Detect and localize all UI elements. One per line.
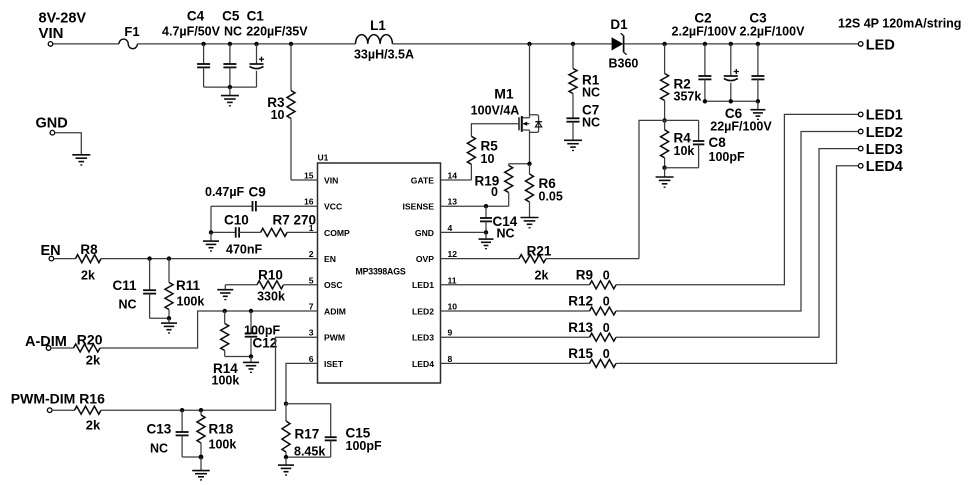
terminal A-DIM xyxy=(25,334,67,350)
svg-text:C11: C11 xyxy=(113,278,138,293)
node input cap ground junction xyxy=(228,85,232,89)
svg-text:3: 3 xyxy=(309,328,314,338)
wire R14/C12 bottom link xyxy=(225,356,251,358)
svg-text:R10: R10 xyxy=(258,267,283,282)
node C14 tap on ISENSE xyxy=(484,204,488,208)
node GND pin junction xyxy=(484,230,488,234)
svg-text:M1: M1 xyxy=(494,86,514,102)
svg-text:LED1: LED1 xyxy=(866,108,903,124)
wire C9 to compensation ground node xyxy=(210,206,212,232)
node R2/R4 OVP divider junction xyxy=(662,118,666,122)
node C12 bottom junction xyxy=(249,354,253,358)
capacitor C6 22uF/100V polarized xyxy=(710,44,772,134)
capacitor C10 470nF on COMP xyxy=(211,213,262,257)
node C1 tap xyxy=(254,42,258,46)
svg-text:0: 0 xyxy=(603,295,610,309)
wire A-DIM net to pin 7 ADIM xyxy=(100,311,318,348)
svg-text:NC: NC xyxy=(582,116,600,130)
wire GND terminal to ground xyxy=(55,133,82,155)
wire R21 to OVP divider xyxy=(546,258,639,260)
svg-text:F1: F1 xyxy=(124,24,139,39)
capacitor C3 2.2uF/100V xyxy=(740,11,806,102)
resistor R18 100k xyxy=(197,410,236,457)
svg-text:22µF/100V: 22µF/100V xyxy=(710,120,772,134)
wire VIN input rail (VIN terminal to fuse F1) xyxy=(53,43,119,45)
svg-text:100k: 100k xyxy=(212,374,240,388)
wire R17/C15 bottom link xyxy=(286,456,331,458)
ground compensation xyxy=(203,232,219,251)
node R4 bottom junction xyxy=(662,166,666,170)
ground OVP divider xyxy=(656,168,674,188)
svg-text:100k: 100k xyxy=(209,437,237,451)
terminal GND xyxy=(36,116,68,136)
svg-text:ISET: ISET xyxy=(324,359,344,369)
wire pin 13 ISENSE net xyxy=(441,205,509,207)
capacitor C1 220uF/35V polarized xyxy=(246,9,308,88)
svg-text:VCC: VCC xyxy=(324,202,342,212)
svg-text:0: 0 xyxy=(491,185,498,199)
svg-text:7: 7 xyxy=(309,302,314,312)
svg-text:ADIM: ADIM xyxy=(324,306,346,316)
svg-text:PWM-DIM: PWM-DIM xyxy=(11,391,76,407)
svg-text:2.2µF/100V: 2.2µF/100V xyxy=(740,24,806,38)
svg-text:VIN: VIN xyxy=(39,25,64,42)
terminal LED3 xyxy=(858,142,902,158)
svg-text:OVP: OVP xyxy=(416,254,434,264)
terminal LED2 xyxy=(858,125,902,141)
svg-text:470nF: 470nF xyxy=(226,243,262,257)
svg-text:PWM: PWM xyxy=(324,333,345,343)
svg-text:C10: C10 xyxy=(224,213,249,228)
capacitor C11 NC xyxy=(113,259,157,319)
svg-text:0.05: 0.05 xyxy=(539,190,563,204)
svg-text:2k: 2k xyxy=(86,418,101,433)
svg-text:R20: R20 xyxy=(77,332,103,348)
svg-text:R9: R9 xyxy=(576,267,593,282)
svg-text:10: 10 xyxy=(271,108,285,122)
svg-text:100k: 100k xyxy=(177,295,205,309)
svg-text:LED3: LED3 xyxy=(866,142,903,158)
svg-text:220µF/35V: 220µF/35V xyxy=(246,25,308,39)
svg-text:R16: R16 xyxy=(79,391,105,407)
resistor R11 100k xyxy=(165,259,204,319)
node C3 tap xyxy=(756,42,760,46)
ground R6 sense xyxy=(521,218,539,228)
resistor R16 2k xyxy=(52,391,105,433)
resistor R12 0 xyxy=(568,294,616,315)
node C6 tap xyxy=(729,42,733,46)
wire pin 10 LED2 to R12 xyxy=(441,310,590,312)
resistor R3 10 xyxy=(267,44,295,180)
wire D1 cathode to LED output rail xyxy=(624,43,858,45)
wire pin 11 LED1 to R9 xyxy=(441,284,590,286)
node R11 bottom junction xyxy=(167,316,171,320)
ground R1/C7 branch xyxy=(564,140,582,150)
resistor R2 357k xyxy=(661,44,702,121)
wire EN net to pin 2 xyxy=(101,258,318,260)
wire output cap bottom rail xyxy=(705,100,758,102)
svg-text:4.7µF/50V: 4.7µF/50V xyxy=(162,25,221,39)
wire R15 to LED4 terminal xyxy=(616,166,858,364)
resistor R8 2k xyxy=(54,242,101,283)
svg-text:330k: 330k xyxy=(257,290,285,304)
resistor R21 2k xyxy=(519,243,552,282)
node M1 drain junction xyxy=(527,42,531,46)
svg-text:357k: 357k xyxy=(674,90,702,104)
svg-text:LED4: LED4 xyxy=(412,359,434,369)
pin names and numbers U1 xyxy=(304,171,457,369)
resistor R7 270 xyxy=(239,213,317,237)
capacitor C15 100pF xyxy=(286,404,382,457)
resistor R4 10k xyxy=(661,120,695,167)
resistor R6 0.05 xyxy=(526,164,563,218)
svg-text:R17: R17 xyxy=(295,426,320,441)
svg-text:EN: EN xyxy=(324,254,336,264)
svg-text:C2: C2 xyxy=(694,11,711,26)
resistor R5 10 xyxy=(467,136,498,180)
node C2 tap xyxy=(703,42,707,46)
diode D1 B360 schottky xyxy=(609,17,639,71)
ground ADIM filter xyxy=(243,357,259,373)
op-amp U1 MP3398AGS controller IC body xyxy=(318,153,441,384)
svg-text:2.2µF/100V: 2.2µF/100V xyxy=(672,24,738,38)
capacitor C12 100pF xyxy=(244,311,280,357)
svg-text:R11: R11 xyxy=(176,278,201,293)
node R17 bottom junction xyxy=(284,455,288,459)
label output string rating xyxy=(838,17,961,31)
svg-text:2k: 2k xyxy=(81,269,95,283)
svg-text:ISENSE: ISENSE xyxy=(402,202,434,212)
svg-text:U1: U1 xyxy=(318,153,329,163)
svg-text:LED2: LED2 xyxy=(412,306,434,316)
capacitor C5 NC xyxy=(222,9,242,88)
wire pin 9 LED3 to R13 xyxy=(441,336,590,338)
svg-text:0: 0 xyxy=(603,321,610,335)
svg-text:15: 15 xyxy=(304,171,314,181)
wire pin 8 LED4 to R15 xyxy=(441,362,590,364)
ground ISET xyxy=(278,457,294,475)
node M1 source junction xyxy=(527,162,531,166)
svg-text:NC: NC xyxy=(582,86,600,100)
node compensation ground junction xyxy=(209,230,213,234)
wire pin 6 ISET to R17 xyxy=(286,363,318,403)
ground OSC timing resistor xyxy=(217,285,233,300)
svg-text:2k: 2k xyxy=(535,269,549,283)
svg-text:R8: R8 xyxy=(80,242,98,257)
inductor L1 33uH/3.5A xyxy=(354,18,414,62)
svg-text:12S 4P 120mA/string: 12S 4P 120mA/string xyxy=(838,17,961,31)
svg-text:R13: R13 xyxy=(568,320,593,335)
svg-text:L1: L1 xyxy=(370,18,386,33)
svg-text:R21: R21 xyxy=(527,243,552,258)
resistor R1 NC xyxy=(569,44,600,118)
terminal VIN xyxy=(39,11,87,47)
capacitor C13 NC xyxy=(147,410,189,457)
node R2 tap xyxy=(662,42,666,46)
terminal EN xyxy=(41,243,61,261)
node R11 tap xyxy=(167,256,171,260)
node R18 tap xyxy=(199,408,203,412)
resistor R13 0 xyxy=(568,320,616,341)
node R17 top junction xyxy=(284,402,288,406)
svg-text:8.45k: 8.45k xyxy=(294,444,325,458)
svg-text:NC: NC xyxy=(150,442,168,456)
ground input caps xyxy=(221,87,239,106)
svg-text:100pF: 100pF xyxy=(709,150,745,164)
node C13 tap xyxy=(180,408,184,412)
resistor R10 330k xyxy=(225,267,317,303)
svg-text:100V/4A: 100V/4A xyxy=(471,104,520,118)
ground U1 GND pin xyxy=(479,232,494,248)
svg-text:C13: C13 xyxy=(147,421,172,436)
node R14 tap xyxy=(223,309,227,313)
svg-text:0: 0 xyxy=(603,268,610,282)
svg-text:B360: B360 xyxy=(609,57,639,71)
resistor R17 8.45k xyxy=(282,404,325,459)
svg-text:5: 5 xyxy=(309,275,314,285)
svg-text:10k: 10k xyxy=(674,144,695,158)
svg-text:8: 8 xyxy=(448,354,453,364)
svg-text:2k: 2k xyxy=(86,353,101,368)
svg-text:0.47µF: 0.47µF xyxy=(205,185,245,199)
capacitor C14 NC xyxy=(480,206,518,240)
wire fuse to inductor L1 (nodes C4 C5 C1 R3) xyxy=(137,43,355,45)
svg-text:D1: D1 xyxy=(610,17,628,32)
svg-text:GND: GND xyxy=(415,228,434,238)
wire PWM-DIM net to pin 3 PWM xyxy=(101,337,318,410)
svg-text:LED1: LED1 xyxy=(412,280,434,290)
svg-text:VIN: VIN xyxy=(324,175,338,185)
wire input cap bottom rail xyxy=(204,86,257,88)
wire R9 to LED1 terminal xyxy=(616,114,858,284)
svg-text:C1: C1 xyxy=(247,9,265,24)
ground GND terminal xyxy=(72,155,90,165)
node output cap rail junctions xyxy=(703,99,760,103)
node R3 tap xyxy=(289,42,293,46)
svg-text:12: 12 xyxy=(448,249,458,259)
svg-text:11: 11 xyxy=(448,275,457,285)
node R1/C7 junction xyxy=(571,42,575,46)
wire gate of M1 to R5 xyxy=(471,124,519,137)
wire R13 to LED3 terminal xyxy=(616,149,858,338)
capacitor C8 100pF xyxy=(693,120,745,167)
fuse F1 xyxy=(119,24,140,49)
svg-text:2: 2 xyxy=(309,249,314,259)
svg-text:C9: C9 xyxy=(249,185,266,200)
resistor R19 0 xyxy=(475,164,513,206)
svg-text:13: 13 xyxy=(448,197,458,207)
svg-text:LED4: LED4 xyxy=(866,159,903,175)
terminal LED1 xyxy=(858,108,902,124)
resistor R9 0 xyxy=(576,267,616,288)
svg-text:NC: NC xyxy=(119,298,137,312)
wire R3 to pin 15 VIN xyxy=(291,179,318,181)
svg-text:C12: C12 xyxy=(253,336,278,351)
svg-text:GATE: GATE xyxy=(411,175,435,185)
svg-text:NC: NC xyxy=(224,25,242,39)
terminal LED output xyxy=(858,38,894,54)
svg-text:C4: C4 xyxy=(187,9,205,24)
svg-text:GND: GND xyxy=(36,116,68,132)
node C12 tap xyxy=(249,309,253,313)
svg-text:33µH/3.5A: 33µH/3.5A xyxy=(354,48,414,62)
capacitor C7 NC xyxy=(567,103,601,141)
resistor R14 100k xyxy=(212,311,240,388)
svg-text:R15: R15 xyxy=(568,346,593,361)
svg-text:100pF: 100pF xyxy=(346,439,382,453)
wire R12 to LED2 terminal xyxy=(616,132,858,312)
svg-text:LED3: LED3 xyxy=(412,333,434,343)
capacitor C2 2.2uF/100V xyxy=(672,11,738,102)
svg-text:LED2: LED2 xyxy=(866,125,903,141)
wire pin 4 GND net xyxy=(441,231,487,233)
svg-text:NC: NC xyxy=(497,227,515,241)
wire C11/R11 bottom link xyxy=(150,317,169,319)
capacitor C4 4.7uF/50V xyxy=(162,9,221,88)
svg-text:0: 0 xyxy=(603,347,610,361)
wire pin 12 OVP to R21 xyxy=(441,258,520,260)
wire R5 to pin 14 GATE xyxy=(441,179,472,181)
svg-text:10: 10 xyxy=(448,302,458,312)
ground EN divider xyxy=(161,318,177,333)
svg-text:9: 9 xyxy=(448,328,453,338)
svg-text:EN: EN xyxy=(41,243,61,259)
node C5 tap xyxy=(228,42,232,46)
svg-text:14: 14 xyxy=(448,171,458,181)
terminal PWM-DIM xyxy=(11,391,76,413)
svg-text:C5: C5 xyxy=(222,9,240,24)
svg-text:R12: R12 xyxy=(568,294,593,309)
svg-text:C8: C8 xyxy=(709,135,727,150)
ground PWM filter xyxy=(192,457,210,480)
svg-text:4: 4 xyxy=(448,223,453,233)
svg-text:16: 16 xyxy=(304,197,314,207)
node C4 tap xyxy=(201,42,205,46)
svg-text:R18: R18 xyxy=(209,421,234,436)
resistor R20 2k xyxy=(51,332,103,368)
transistor M1 MOSFET 100V/4A xyxy=(471,44,542,164)
svg-text:R7 270: R7 270 xyxy=(273,213,317,228)
svg-text:COMP: COMP xyxy=(324,228,350,238)
wire L1 to diode D1 (switch node) xyxy=(392,43,611,45)
node C11 tap xyxy=(147,256,151,260)
svg-text:LED: LED xyxy=(866,38,895,54)
svg-text:10: 10 xyxy=(481,152,495,166)
terminal LED4 xyxy=(858,159,902,175)
ground output caps xyxy=(750,101,765,119)
wire OVP feedback (R21 to divider node and C8) xyxy=(639,120,699,258)
svg-text:MP3398AGS: MP3398AGS xyxy=(355,266,405,276)
svg-text:6: 6 xyxy=(309,354,314,364)
svg-text:OSC: OSC xyxy=(324,280,343,290)
wire R19/R6 top link to M1 source xyxy=(509,163,530,165)
wire R4/C8 bottom link xyxy=(665,167,699,169)
capacitor C9 0.47uF on VCC xyxy=(205,185,318,212)
wire C13/R18 bottom link xyxy=(182,456,201,458)
resistor R15 0 xyxy=(568,346,616,367)
node R18 bottom junction xyxy=(199,455,204,460)
svg-text:C3: C3 xyxy=(749,11,767,26)
